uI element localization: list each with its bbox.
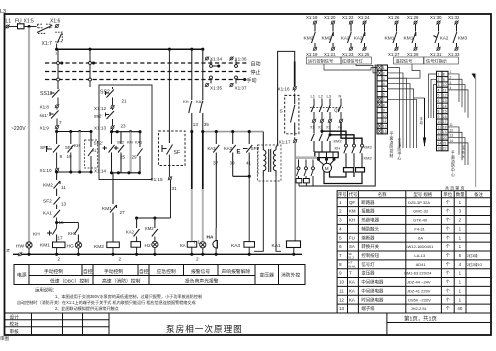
svg-text:应急控制: 应急控制 [157,268,176,275]
svg-text:端子排: 端子排 [361,305,375,312]
contact KM1 sig2 [413,21,417,25]
label box lamp signal [341,57,372,64]
svg-text:N: N [339,94,342,99]
svg-text:13: 13 [193,122,199,127]
svg-text:X1:32: X1:32 [448,15,460,20]
svg-text:12: 12 [443,94,447,98]
svg-text:X1:6: X1:6 [50,19,61,25]
wire SS2 drop [89,49,91,87]
wire switch to bus [56,44,58,50]
svg-text:KH: KH [335,146,341,151]
svg-text:遥控信号: 遥控信号 [396,57,413,64]
svg-text:2: 2 [438,78,440,82]
wire phase stubs [314,99,341,105]
svg-text:个: 个 [446,306,451,311]
svg-text:HA: HA [207,235,214,241]
title block [5,313,492,335]
svg-text:手动控制: 手动控制 [44,268,63,275]
selector switch SA pole 2 [55,32,62,43]
svg-text:自动: 自动 [251,61,261,68]
contact KA2 sig3 [349,21,353,25]
svg-text:X1:17: X1:17 [279,140,291,145]
svg-text:FU: FU [349,235,355,240]
svg-text:KM3: KM3 [364,145,373,150]
fuse FU [18,24,25,29]
selector linkage dashed line 1 (auto) [45,62,249,64]
wires strip XT1 staircase [388,68,417,148]
svg-text:共 页 第 页: 共 页 第 页 [445,185,464,191]
svg-text:F4-31: F4-31 [414,226,425,231]
svg-text:KA3: KA3 [231,243,240,249]
svg-text:37: 37 [213,161,219,166]
svg-text:审图: 审图 [0,335,9,342]
SP2 linkage dashed [257,147,259,175]
terminal X1:34 [205,57,209,61]
svg-text:1、本图适用于交流380V水泵房的高低速控制，过载只报警，小: 1、本图适用于交流380V水泵房的高低速控制，过载只报警，小于功率按选防控制 [55,293,202,299]
svg-text:JDZ-41 220V: JDZ-41 220V [407,288,431,293]
svg-text:X1:26: X1:26 [388,15,400,20]
svg-text:3: 3 [450,81,452,85]
junction bar SS2 group bottom [111,172,141,174]
svg-text:QF: QF [334,108,341,113]
svg-text:KM2: KM2 [94,244,104,250]
svg-text:个: 个 [446,262,451,267]
svg-text:X1:8: X1:8 [40,105,50,110]
svg-text:X1:13: X1:13 [94,126,106,131]
svg-text:ss2': ss2' [94,114,102,120]
svg-text:2红2绿1G: 2红2绿1G [467,262,482,267]
svg-text:14: 14 [450,139,454,143]
svg-text:L1: L1 [311,94,316,99]
svg-text:KM3: KM3 [458,36,468,41]
svg-text:2: 2 [119,257,122,262]
svg-text:QF: QF [349,200,355,205]
svg-text:KA: KA [349,288,355,293]
terminal X1:36 [229,57,233,61]
svg-text:2: 2 [196,257,199,262]
svg-text:KM1: KM1 [40,243,50,249]
flag symbol [472,74,477,81]
selector linkage dashed line 3 (manual) [45,79,249,81]
svg-text:X1:12: X1:12 [94,106,106,111]
svg-text:L2: L2 [319,94,324,99]
svg-text:SA: SA [349,244,355,249]
contactor KM1 main contacts [311,122,314,152]
svg-text:X1:20: X1:20 [324,15,336,20]
svg-text:FU: FU [15,19,22,25]
svg-text:17: 17 [443,120,447,124]
svg-text:电源: 电源 [17,272,27,279]
riser 2 lower (highlighted) [202,132,204,189]
svg-text:GTK-40: GTK-40 [413,218,428,223]
svg-text:16: 16 [443,115,447,119]
svg-text:11: 11 [61,185,66,190]
svg-text:X1:24: X1:24 [358,15,370,20]
svg-text:10: 10 [339,280,344,285]
terminal strip XT2 [437,71,449,151]
svg-text:低速（DBC）控制: 低速（DBC）控制 [50,277,89,284]
svg-text:X1:19: X1:19 [306,52,318,57]
junction bar SS1 group top [57,131,91,133]
svg-text:中间继电器: 中间继电器 [361,287,384,294]
svg-text:4: 4 [438,88,440,92]
main control bus 1 [57,48,203,50]
svg-text:KA2: KA2 [354,36,363,41]
svg-text:18: 18 [443,126,447,130]
label box signal indicate [424,57,459,64]
svg-text:X1:33: X1:33 [448,52,460,57]
svg-text:13: 13 [383,130,387,134]
svg-text:KM2: KM2 [322,36,332,42]
svg-text:KM2: KM2 [304,36,314,42]
svg-text:T: T [349,271,352,276]
svg-text:IN.HL: IN.HL [348,264,356,268]
control station 2 boundary box [99,85,152,180]
svg-text:10: 10 [443,83,447,87]
svg-text:41: 41 [246,161,252,166]
svg-text:40: 40 [457,306,462,311]
crossover feed to KM3 branch [320,130,323,133]
svg-text:手动控制: 手动控制 [104,268,123,275]
svg-text:KA2: KA2 [341,36,350,41]
svg-text:19: 19 [443,131,447,135]
svg-text:X1:15: X1:15 [151,177,163,182]
svg-text:29: 29 [132,155,138,160]
svg-text:L3: L3 [327,94,332,99]
svg-text:21: 21 [443,141,447,145]
terminal X1:6 [55,24,59,28]
svg-text:个: 个 [446,297,451,302]
terminal X1:35 [205,83,209,87]
svg-text:审核: 审核 [10,328,20,335]
svg-text:X1:5: X1:5 [24,19,35,25]
SS1 column terminals on linkage lines [57,62,60,65]
wire X1:17 to KA1 (highlighted) [294,143,296,241]
svg-text:KM2: KM2 [145,226,154,231]
svg-text:17: 17 [58,236,64,241]
svg-text:投负荷声光报警: 投负荷声光报警 [185,277,219,284]
svg-text:4: 4 [450,86,452,90]
contact KA2 sigB3 [436,21,440,25]
contact KM3 sigB4 [454,21,458,25]
svg-text:KA: KA [349,280,355,285]
gray wire branch 2 [130,132,132,173]
contact circle manual row [210,76,213,79]
svg-text:报警信号: 报警信号 [191,268,210,275]
external switch S (dashed box) [285,95,299,133]
svg-text:KM1: KM1 [385,36,395,42]
svg-text:3: 3 [438,83,440,87]
svg-text:第1页，共1页: 第1页，共1页 [404,314,438,322]
svg-text:19: 19 [67,154,73,159]
svg-text:LW12-16D0401: LW12-16D0401 [406,244,434,249]
svg-text:运用说明：: 运用说明： [35,287,57,294]
svg-text:9: 9 [383,109,385,113]
svg-text:中间继电器: 中间继电器 [361,279,384,286]
svg-text:11: 11 [383,119,387,123]
svg-text:14: 14 [443,104,447,108]
svg-text:2、此图联动模拟提供无源常开触点: 2、此图联动模拟提供无源常开触点 [55,305,119,311]
svg-text:11: 11 [443,88,447,92]
svg-text:自动控制时（消防开关）在X1:1上的端子处于关手式 机内联: 自动控制时（消防开关）在X1:1上的端子处于关手式 机内联锁只能运行 相应信息连… [17,299,196,305]
svg-text:个: 个 [446,253,451,258]
terminal strip XT1 [377,65,388,134]
svg-text:KA1: KA1 [43,211,52,217]
remote stop button SF (dashed box) [159,131,186,166]
svg-text:KM2: KM2 [43,183,53,189]
svg-text:DS50 ~220V: DS50 ~220V [408,297,431,302]
svg-text:HG: HG [67,244,74,250]
svg-text:手动: 手动 [247,77,257,84]
svg-text:AD41: AD41 [416,262,427,267]
svg-text:01.2: 01.2 [348,255,354,259]
svg-text:设计: 设计 [10,314,20,321]
svg-text:红绿信号灯: 红绿信号灯 [342,57,364,64]
svg-text:2: 2 [58,257,61,262]
svg-text:HW: HW [16,244,24,250]
terminals X1:1..X1:4 [312,119,316,123]
svg-text:13: 13 [339,306,344,311]
svg-text:泵房相一次原理图: 泵房相一次原理图 [166,323,243,334]
terminal X1:37 [229,83,233,87]
svg-text:2红3绿: 2红3绿 [467,253,478,258]
svg-text:KM: KM [127,141,133,145]
transformer primary winding [263,132,266,176]
gray feed wire [296,156,317,159]
svg-text:控制按钮: 控制按钮 [361,252,379,259]
svg-text:~220V: ~220V [11,126,26,132]
svg-text:31: 31 [172,186,178,191]
svg-text:个: 个 [446,200,451,205]
svg-text:20: 20 [443,136,447,140]
wire bus to SF box [168,49,170,131]
svg-text:X1:30: X1:30 [430,15,442,20]
svg-text:X1:35: X1:35 [210,86,222,91]
svg-text:X1:9: X1:9 [40,126,50,131]
external control loop wire [278,51,295,145]
junction bar mid [137,217,171,219]
svg-text:15: 15 [443,110,447,114]
svg-text:9: 9 [60,154,63,159]
svg-text:运行控制信号: 运行控制信号 [308,57,333,64]
svg-text:X1:25: X1:25 [358,52,370,57]
svg-text:27: 27 [120,210,126,215]
svg-text:6: 6 [383,93,385,97]
contact KM2 sig1 [313,21,317,25]
wire stub X1:36 [235,60,237,65]
svg-text:热继电器: 热继电器 [361,217,379,224]
svg-text:14: 14 [438,141,442,145]
svg-text:辅助触头: 辅助触头 [361,225,379,232]
svg-text:22: 22 [443,147,447,151]
svg-text:KH: KH [74,143,80,148]
svg-text:13: 13 [443,99,447,103]
svg-text:个: 个 [446,288,451,293]
aux contact branch [299,160,314,168]
svg-text:备注: 备注 [474,191,483,198]
svg-text:KM2: KM2 [364,156,373,161]
svg-text:SF1': SF1' [40,145,50,151]
heater resistor R2 [356,168,365,172]
svg-text:12: 12 [450,128,454,132]
svg-text:自控: 自控 [83,268,93,275]
svg-text:变压器: 变压器 [260,272,275,279]
svg-text:个: 个 [446,235,451,240]
svg-text:高速（消防）控制: 高速（消防）控制 [102,277,141,284]
BOM table [337,191,491,313]
branch to HG [57,222,79,224]
wire X1:15 down [170,180,172,218]
svg-text:13: 13 [61,202,67,207]
svg-text:2: 2 [450,76,452,80]
svg-text:L1: L1 [6,19,12,25]
svg-text:S: S [280,109,283,115]
svg-text:X1:10: X1:10 [40,168,52,173]
svg-text:9: 9 [438,115,440,119]
terminal L1 [5,25,9,29]
svg-text:个: 个 [446,271,451,276]
wire delta loops [324,171,362,183]
svg-text:7: 7 [59,120,62,125]
svg-text:KA1: KA1 [135,141,142,145]
svg-text:1: 1 [450,70,452,74]
svg-text:平面消防控制: 平面消防控制 [390,132,394,158]
svg-text:X1:21: X1:21 [324,52,336,57]
svg-text:X1:34: X1:34 [210,57,222,62]
svg-text:KM: KM [349,209,356,214]
wires strip XT2 right staircase [448,74,468,165]
aux heater R4 [304,179,310,183]
arrow to remote [424,98,426,146]
wire thick to X1:16 [294,61,296,86]
wire stub X1:37 [235,79,237,84]
svg-text:停止: 停止 [251,69,261,76]
svg-text:信号灯: 信号灯 [361,261,375,268]
svg-text:13: 13 [450,134,454,138]
usage notes [17,287,202,311]
junction bar emergency [233,175,250,177]
wire transformer primary down [254,176,263,251]
svg-text:KH: KH [349,218,355,223]
svg-text:接触器: 接触器 [361,208,375,215]
svg-text:15: 15 [438,147,442,151]
svg-text:7: 7 [383,98,385,102]
svg-text:JH2-2.5L: JH2-2.5L [411,306,428,311]
wire stub X1:34 [210,60,212,65]
coil KM3 [131,242,141,248]
neutral bus N [13,253,302,255]
svg-text:X1:23: X1:23 [342,52,354,57]
svg-text:熔断器: 熔断器 [361,234,375,241]
svg-text:3: 3 [383,77,385,81]
contact KM2 sig2 [331,21,335,25]
svg-text:JDZ-44 ~24V: JDZ-44 ~24V [407,280,431,285]
selector switch SA pole 1 [37,24,52,33]
svg-text:11: 11 [450,123,454,127]
svg-text:8: 8 [443,73,445,77]
svg-text:时间继电器: 时间继电器 [361,296,384,303]
svg-text:9: 9 [443,78,445,82]
svg-text:11: 11 [339,288,344,293]
contact KA2 sig4 [362,21,366,25]
svg-text:X1:22: X1:22 [342,15,354,20]
contactor KM3 contacts [345,144,348,147]
svg-text:ss1': ss1' [40,113,48,119]
contact KM1 sig1 [394,21,398,25]
svg-text:X1:29: X1:29 [407,52,419,57]
wire fuse to node [24,26,37,28]
aux heater R3 [296,179,302,183]
junction bar SS2 group top [111,131,141,133]
wire stub X1:35 [210,79,212,84]
svg-text:名称: 名称 [378,191,387,198]
svg-text:KM2: KM2 [334,139,343,144]
svg-text:校对: 校对 [10,321,20,328]
svg-text:11: 11 [438,126,442,130]
svg-text:序号: 序号 [338,191,347,198]
svg-text:7: 7 [438,104,440,108]
svg-text:X1:14: X1:14 [94,169,106,174]
svg-text:单位: 单位 [443,191,452,198]
svg-text:5: 5 [383,87,385,91]
svg-text:6A: 6A [418,235,423,240]
label box run control signal [307,57,342,64]
svg-text:1: 1 [383,66,385,70]
breaker QF [311,105,341,113]
svg-text:声响报警解除: 声响报警解除 [222,268,251,275]
svg-text:M: M [325,166,329,171]
svg-text:个: 个 [446,244,451,249]
motor M [317,158,320,161]
svg-text:KH: KH [183,99,189,104]
svg-text:个: 个 [446,209,451,214]
svg-text:型号 规格: 型号 规格 [413,191,432,198]
svg-text:断路器: 断路器 [361,199,375,206]
SS2 column terminals on linkage lines [89,62,92,65]
svg-text:25: 25 [120,155,126,160]
svg-text:个: 个 [446,280,451,285]
svg-text:个: 个 [446,218,451,223]
svg-text:平面消防中心: 平面消防中心 [451,151,455,177]
function strip table [14,265,305,285]
svg-text:KA2: KA2 [126,230,135,235]
node X1:5 [27,25,30,28]
svg-text:KA: KA [349,297,355,302]
svg-text:5: 5 [438,94,440,98]
riser 1 lower (highlighted) [191,132,193,189]
transformer core [268,149,270,172]
svg-text:变压器: 变压器 [361,270,375,277]
svg-text:10: 10 [383,114,387,118]
svg-text:X1:37: X1:37 [235,86,247,91]
svg-text:8: 8 [383,103,385,107]
svg-text:X1:16: X1:16 [278,87,290,92]
svg-text:KM1: KM1 [404,36,414,42]
svg-text:LA-13: LA-13 [414,253,425,258]
svg-text:12: 12 [383,125,387,129]
wire L1 input [9,26,18,28]
svg-text:23: 23 [121,124,127,129]
svg-text:21: 21 [122,99,128,104]
svg-text:自控: 自控 [139,268,149,275]
svg-text:12: 12 [339,297,344,302]
svg-text:信号灯指示: 信号灯指示 [426,57,447,64]
svg-text:KA: KA [180,243,186,248]
contact circle auto row [210,65,213,68]
gray wire branch [79,132,81,173]
svg-text:X1:28: X1:28 [407,15,419,20]
svg-text:X1:27: X1:27 [388,52,400,57]
